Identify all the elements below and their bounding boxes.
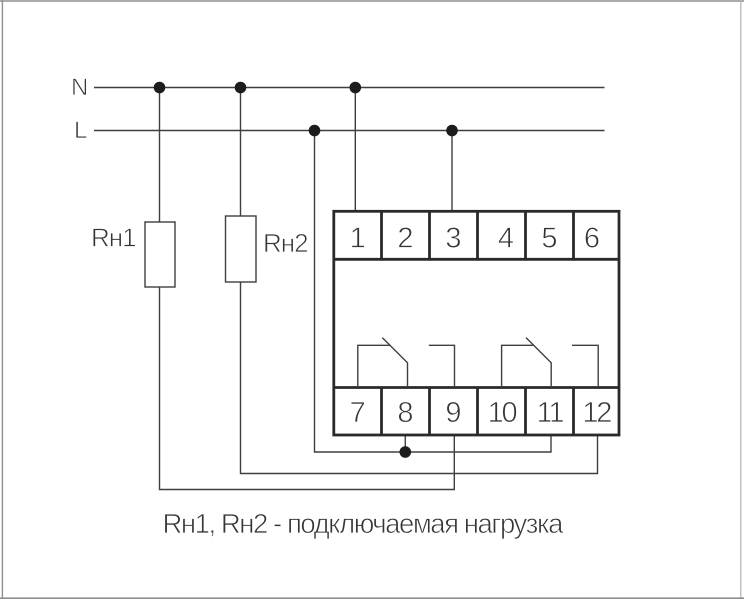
- top row divider 2|3: [428, 211, 431, 259]
- svg-text:11: 11: [537, 397, 564, 429]
- svg-text:2: 2: [397, 223, 413, 255]
- wire L line: [94, 130, 605, 132]
- svg-text:N: N: [71, 74, 88, 101]
- junction dot N-Rн1: [154, 82, 166, 94]
- svg-text:7: 7: [350, 397, 366, 429]
- svg-text:Rн1, Rн2 - подключаемая нагруз: Rн1, Rн2 - подключаемая нагрузка: [163, 508, 565, 539]
- relay contact K2 fixed contact from pin 10: [502, 345, 534, 387]
- frame right border: [740, 0, 742, 599]
- svg-text:1: 1: [350, 223, 366, 255]
- svg-text:4: 4: [498, 223, 514, 255]
- svg-text:6: 6: [584, 223, 600, 255]
- bottom row divider 11|12: [572, 388, 575, 436]
- svg-text:9: 9: [445, 397, 461, 429]
- relay top terminal row bottom edge: [334, 258, 619, 261]
- bottom row divider 8|9: [428, 388, 431, 436]
- bottom row divider 9|10: [476, 388, 479, 436]
- relay contact K1 fixed contact from pin 7: [358, 345, 390, 387]
- wire terminal 8 stub: [404, 435, 406, 452]
- svg-text:8: 8: [397, 397, 413, 429]
- relay box outline U1: [334, 211, 619, 435]
- top row divider 5|6: [572, 211, 575, 259]
- relay contact K1 blade from pin 8: [382, 338, 407, 388]
- svg-text:12: 12: [582, 397, 611, 429]
- resistor Rн2: [226, 216, 257, 282]
- junction dot L-terminal3: [446, 125, 458, 137]
- wire N to Rн2 to terminal 12: [241, 88, 598, 474]
- svg-text:5: 5: [541, 223, 557, 255]
- top row divider 4|5: [524, 211, 527, 259]
- wire N to terminal 1: [354, 88, 356, 213]
- frame top border: [0, 0, 744, 2]
- top row divider 1|2: [380, 211, 383, 259]
- top row divider 3|4: [476, 211, 479, 259]
- relay bottom terminal row top edge: [334, 386, 619, 389]
- wire L to terminal 3: [451, 131, 453, 213]
- bottom row divider 10|11: [524, 388, 527, 436]
- svg-text:Rн1: Rн1: [91, 223, 136, 253]
- svg-text:Rн2: Rн2: [263, 228, 308, 258]
- junction dot N-terminal1: [350, 82, 362, 94]
- frame left border: [1, 0, 3, 599]
- bottom row divider 7|8: [380, 388, 383, 436]
- frame bottom border: [0, 597, 744, 599]
- junction dot L-down: [309, 125, 321, 137]
- wire N to Rн1 to terminal 9: [160, 88, 455, 490]
- relay contact K1 fixed contact from pin 9: [429, 345, 455, 387]
- junction dot N-Rн2: [235, 82, 247, 94]
- svg-text:L: L: [74, 117, 87, 144]
- junction dot terminal 8 net: [400, 446, 412, 458]
- wire N line: [94, 87, 605, 89]
- svg-text:10: 10: [488, 397, 517, 429]
- svg-text:3: 3: [445, 223, 461, 255]
- relay contact K2 blade from pin 11: [526, 338, 551, 388]
- resistor Rн1: [145, 222, 175, 287]
- wire L to terminals 8 and 11: [315, 131, 552, 453]
- relay contact K2 fixed contact from pin 12: [572, 345, 598, 387]
